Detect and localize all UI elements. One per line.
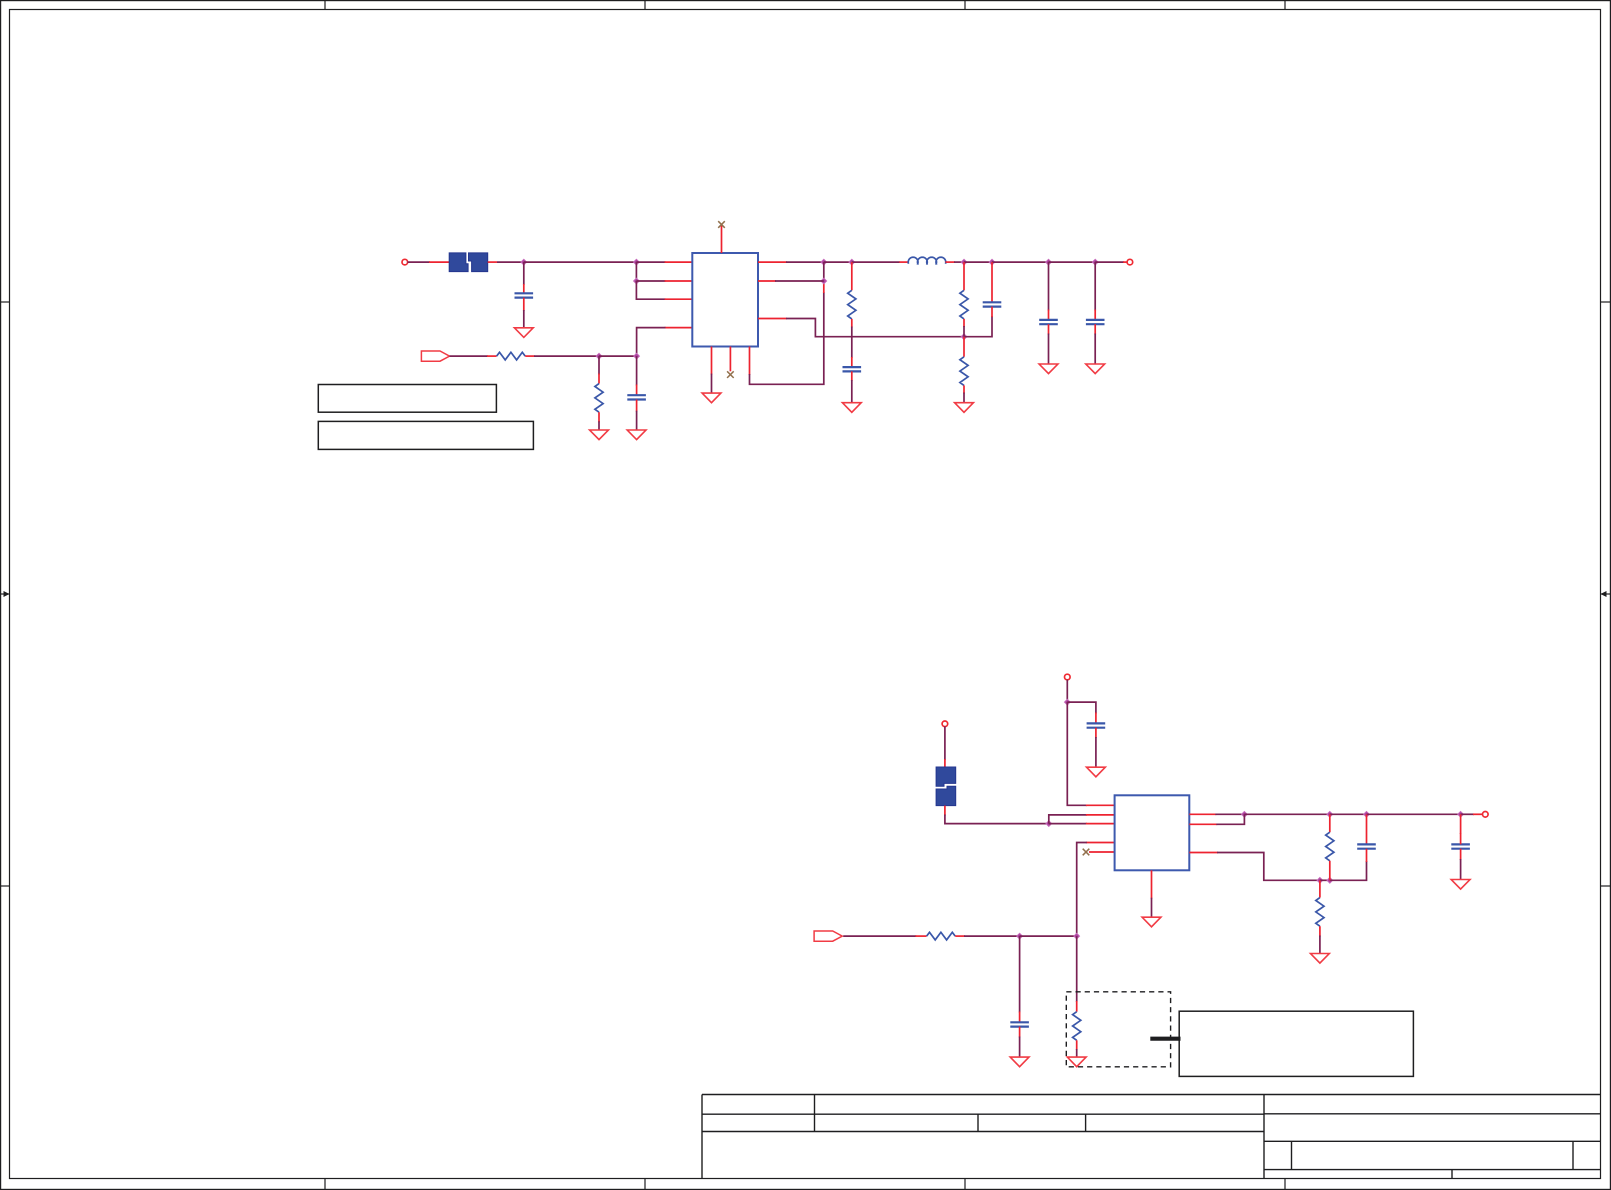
wire resistor R3 to capacitor C3 [851, 327, 853, 359]
capacitor C3 [843, 367, 862, 371]
pin stub U1 pin 4 [665, 327, 693, 329]
title block left section [702, 1095, 1264, 1179]
wire stub resistor R7 top [1319, 880, 1321, 897]
wire capacitor C6 to ground [1094, 334, 1096, 365]
wire VCC2 terminal down to node P [1066, 680, 1068, 702]
node VOUT2 terminal circle [1483, 812, 1489, 818]
no-connect X on U1 bottom pin [727, 371, 734, 378]
wire node C to U1 pin 2 [636, 280, 665, 282]
wire stub capacitor C7 bottom [1095, 728, 1097, 738]
resistor R3 [848, 290, 856, 319]
wire node W down to capacitor C9 [1460, 814, 1462, 834]
capacitor C2 [627, 395, 646, 399]
wire BATT terminal down to fuse F2 [944, 726, 946, 760]
wire resistor R5 to ground [963, 393, 965, 403]
wire capacitor C5 to ground [1048, 334, 1050, 365]
pin stub U1 pin 1 [665, 261, 693, 263]
junction node R [1017, 933, 1023, 939]
wire U1 output to node F [786, 261, 824, 263]
wire U1 pin 4 down to port line node E [637, 328, 666, 357]
node VCC2 terminal circle [1065, 674, 1071, 680]
wire node C down and right to U1 pin 3 [636, 281, 665, 299]
thermistor R9 [1073, 1012, 1081, 1041]
resistor R5 [960, 357, 968, 386]
wire stub feedback to node G [823, 281, 825, 293]
wire stub capacitor C10 top [1019, 1012, 1021, 1023]
junction node V [1364, 811, 1370, 817]
border zone ticks right [1601, 302, 1611, 886]
wire U1 comp pin to node J rail [786, 319, 964, 337]
border centering arrow right [1601, 591, 1611, 597]
wire node H to inductor L1 [852, 261, 900, 263]
ground below U1 [702, 393, 721, 403]
wire stub resistor R2 bottom [598, 412, 600, 422]
wire stub capacitor C3 top [851, 357, 853, 367]
pin stub U1 output pin VOUT [758, 261, 787, 263]
wire stub capacitor C8 bottom [1366, 849, 1368, 862]
wire U2 feedback pin to node X [1217, 853, 1320, 881]
pin stub U2 pin 4 [1086, 842, 1115, 844]
junction node W [1458, 811, 1464, 817]
junction node S [1074, 933, 1080, 939]
wire stub into fuse F1 [429, 261, 449, 263]
text box placeholder 1 [318, 385, 496, 413]
wire U1 sense pin to node G [775, 280, 824, 282]
wire stub resistor R3 bottom [851, 319, 853, 328]
border zone ticks top [325, 0, 1285, 10]
note box placeholder [1179, 1011, 1413, 1076]
junction node Y [1327, 877, 1333, 883]
node VOUT terminal circle [1127, 259, 1133, 265]
wire stub capacitor C1 bottom [523, 298, 525, 311]
wire stub capacitor C5 top [1048, 310, 1050, 320]
wire node D down to resistor R2 [598, 356, 600, 374]
wire stub capacitor C9 bottom [1460, 849, 1462, 860]
no-connect X on U1 top pin [718, 221, 725, 228]
wire stub into fuse F2 [944, 759, 946, 767]
output capacitor C6 [1086, 320, 1105, 324]
no-connect X on U2 pin 5 [1083, 849, 1090, 856]
pin stub U1 sense pin [758, 280, 776, 282]
ground below C9 [1451, 880, 1470, 890]
junction node X [1317, 877, 1323, 883]
wire node Q to U2 pin 3 [1049, 823, 1087, 825]
pin stub U2 sense pin [1189, 823, 1217, 825]
wire stub resistor R2 top [598, 374, 600, 384]
wire stub capacitor C5 bottom [1048, 324, 1050, 334]
pin stub U2 bottom GND pin [1151, 870, 1153, 898]
wire node P down to U2 pin 1 [1067, 702, 1087, 805]
resistor R4 [960, 290, 968, 319]
wire node R to node S [1020, 935, 1077, 937]
pin stub U2 output pin [1189, 813, 1216, 815]
wire fuse F1 to node A [497, 261, 524, 263]
wire stub out of fuse F1 [488, 261, 497, 263]
wire stub capacitor C9 top [1460, 833, 1462, 844]
ground below C6 [1086, 364, 1105, 374]
fuse F1 [449, 253, 488, 272]
pin stub U2 pin 5 [1089, 851, 1115, 853]
wire stub resistor R1 left [487, 355, 497, 357]
pin stub U1 bottom pin NC [729, 347, 731, 372]
junction node D [596, 353, 602, 359]
junction node F [821, 259, 827, 265]
pin stub U2 pin 3 [1086, 823, 1115, 825]
junction node T [1242, 811, 1248, 817]
capacitor C7 [1087, 723, 1106, 727]
pin stub U1 top pin [721, 226, 723, 254]
IC U2 regulator box [1115, 795, 1190, 870]
node VIN terminal circle [402, 259, 408, 265]
wire stub capacitor C6 bottom [1094, 324, 1096, 334]
title block right section [1264, 1095, 1601, 1179]
pin stub U2 pin 2 [1086, 814, 1115, 816]
wire stub capacitor C1 top [523, 284, 525, 293]
resistor R8 [927, 932, 956, 940]
wire stub capacitor C3 bottom [851, 371, 853, 381]
wire resistor R4 to node J [963, 326, 965, 337]
ground below U2 [1142, 917, 1161, 927]
pin stub U1 bottom pin GND [711, 347, 713, 375]
junction node A [521, 259, 527, 265]
wire stub VOUT terminal [1123, 261, 1127, 263]
wire stub inductor L1 left [899, 261, 908, 263]
junction node M [1046, 259, 1052, 265]
wire node N to VOUT terminal [1095, 261, 1124, 263]
wire capacitor C1 to ground [523, 310, 525, 328]
wire resistor R1 to node D [534, 355, 599, 357]
wire stub resistor R6 top [1329, 814, 1331, 832]
capacitor C9 [1451, 844, 1470, 848]
resistor R1 [497, 352, 526, 360]
wire node W to VOUT2 terminal [1461, 813, 1474, 815]
fuse F2 [936, 767, 956, 806]
wire stub capacitor C7 top [1095, 713, 1097, 724]
pin stub U2 pin 1 [1086, 804, 1115, 806]
wire node D to node E [599, 355, 637, 357]
wire port P2 to resistor R8 [843, 935, 916, 937]
wire stub capacitor C2 top [636, 385, 638, 396]
wire port P1 to resistor R1 [450, 355, 488, 357]
wire node A to node B [524, 261, 637, 263]
wire node N down to capacitor C6 [1094, 262, 1096, 310]
ground below C1 [514, 328, 533, 338]
ground below R7 [1311, 954, 1330, 964]
wire thermistor R9 to ground [1076, 1049, 1078, 1057]
pin stub U2 feedback pin [1189, 852, 1218, 854]
feedforward capacitor C4 [983, 302, 1002, 306]
wire stub capacitor C6 top [1094, 310, 1096, 320]
junction node H [849, 259, 855, 265]
wire stub resistor R5 top [963, 337, 965, 357]
wire node P right and down to capacitor C7 [1067, 702, 1096, 713]
wire node X to node Y [1320, 879, 1330, 881]
wire capacitor C9 to ground [1460, 859, 1462, 880]
border zone ticks bottom [325, 1179, 1285, 1190]
wire capacitor C7 to ground [1095, 737, 1097, 767]
port P2 input arrow [814, 931, 842, 941]
wire stub thermistor R9 top [1076, 1001, 1078, 1012]
wire U1 GND pin to ground [711, 374, 713, 394]
junction node Q [1046, 821, 1052, 827]
resistor R6 [1326, 832, 1334, 861]
junction node G [821, 278, 827, 284]
wire node J to feedforward capacitor C4 [964, 316, 992, 337]
wire stub resistor R6 bottom [1329, 861, 1331, 881]
junction node N [1092, 259, 1098, 265]
port P1 input arrow [421, 351, 449, 361]
wire stub resistor R4 top [963, 262, 965, 290]
wire node E down to capacitor C2 [636, 356, 638, 385]
output capacitor C5 [1039, 320, 1058, 324]
inductor L1 [908, 257, 946, 264]
junction node J [961, 334, 967, 340]
IC U1 regulator box [692, 253, 758, 347]
border centering arrow left [0, 591, 10, 597]
junction node E [634, 353, 640, 359]
wire U1 bottom pin to feedback loop [750, 292, 824, 384]
pin stub U1 bottom pin SW return [749, 347, 751, 376]
junction node P [1064, 699, 1070, 705]
wire stub out of fuse F2 [944, 806, 946, 816]
wire node V to node W [1367, 813, 1461, 815]
wire node A down to capacitor C1 [523, 262, 525, 285]
ground below C5 [1039, 364, 1058, 374]
wire stub capacitor C4 bottom [991, 307, 993, 317]
pin stub U1 compensation pin [758, 318, 787, 320]
wire node Q up to U2 pin 2 [1049, 815, 1087, 824]
wire node F down to node G [823, 262, 825, 281]
wire stub capacitor C8 top [1366, 814, 1368, 844]
junction node B [634, 259, 640, 265]
wire stub VOUT2 terminal [1473, 813, 1483, 815]
pin stub U1 pin 2 [665, 280, 693, 282]
wire U2 output to node T [1215, 813, 1244, 815]
resistor R7 [1316, 898, 1324, 927]
ground below R5 [955, 403, 974, 413]
wire resistor R2 to ground [598, 421, 600, 430]
junction node K [961, 259, 967, 265]
wire inductor L1 to node K [954, 261, 964, 263]
wire stub resistor R8 right [955, 935, 965, 937]
wire stub inductor L1 right [946, 261, 955, 263]
wire node T to node U [1244, 813, 1329, 815]
wire capacitor C3 to ground [851, 380, 853, 403]
wire node B down to node C [635, 262, 637, 281]
wire node F to node H [824, 261, 852, 263]
capacitor C8 [1357, 844, 1376, 848]
junction node U [1327, 811, 1333, 817]
wire U2 GND pin to ground [1151, 898, 1153, 918]
wire stub capacitor C2 bottom [636, 400, 638, 412]
resistor R2 [595, 384, 603, 413]
wire VIN to fuse F1 [408, 261, 431, 263]
wire node B to U1 pin 1 [636, 261, 665, 263]
ground below R9 [1067, 1057, 1086, 1067]
dashed optional block outline [1066, 992, 1170, 1067]
wire capacitor C2 to ground [636, 411, 638, 430]
wire stub feedforward capacitor C4 top [991, 262, 993, 302]
wire stub resistor R4 bottom [963, 319, 965, 327]
wire capacitor C10 to ground [1019, 1037, 1021, 1058]
wire node L to node M [992, 261, 1049, 263]
border zone ticks left [0, 302, 10, 886]
ground below C2 [627, 430, 646, 440]
note leader thick bar [1150, 1037, 1180, 1041]
junction node L [989, 259, 995, 265]
junction node C [634, 278, 640, 284]
wire resistor R7 to ground [1319, 936, 1321, 954]
wire node Y to capacitor C8 bottom [1330, 861, 1367, 880]
wire stub resistor R3 top [851, 262, 853, 290]
wire node U to node V [1330, 813, 1367, 815]
wire fuse F2 down and right to node Q [945, 815, 1049, 824]
wire stub resistor R5 bottom [963, 385, 965, 393]
ground below C3 [842, 403, 861, 413]
wire stub resistor R8 left [915, 935, 926, 937]
text box placeholder 2 [318, 421, 533, 449]
ground below C7 [1087, 767, 1106, 777]
wire resistor R8 to node R [964, 935, 1020, 937]
wire node K to node L [964, 261, 992, 263]
ground below C10 [1010, 1057, 1029, 1067]
wire node M down to capacitor C5 [1048, 262, 1050, 310]
wire U2 pin 4 down to node S [1077, 843, 1087, 937]
pin stub U1 pin 3 [665, 298, 693, 300]
wire node S down into thermistor block [1076, 936, 1078, 1002]
capacitor C1 [515, 293, 534, 297]
wire node M to node N [1049, 261, 1096, 263]
node BATT terminal circle [942, 721, 948, 727]
wire stub capacitor C10 bottom [1019, 1027, 1021, 1038]
capacitor C10 [1010, 1022, 1029, 1026]
wire stub resistor R1 right [525, 355, 535, 357]
wire U2 sense pin up to node T [1216, 814, 1244, 824]
wire stub thermistor R9 bottom [1076, 1040, 1078, 1050]
ground below R2 [590, 430, 609, 440]
wire node R down to capacitor C10 [1019, 936, 1021, 1012]
wire stub resistor R7 bottom [1319, 926, 1321, 936]
